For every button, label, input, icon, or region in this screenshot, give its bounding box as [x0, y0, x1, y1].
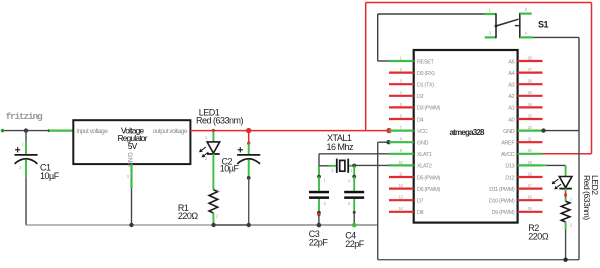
capacitor C3 — [318, 177, 320, 191]
pin 4 D2 — [389, 95, 414, 97]
wire LED2 to R2 — [565, 188, 567, 201]
wire VCC right drop — [591, 3, 593, 154]
svg-text:S1: S1 — [538, 20, 549, 30]
pin 22 GND — [518, 130, 543, 132]
svg-text:D5 (PWM): D5 (PWM) — [417, 175, 440, 181]
svg-text:D7: D7 — [417, 199, 424, 205]
wire crystal left down to C3 — [318, 166, 320, 177]
svg-text:220Ω: 220Ω — [528, 232, 549, 242]
wire C3 to ground rail — [318, 215, 320, 225]
LED1 symbol — [207, 142, 220, 153]
svg-text:VCC: VCC — [417, 129, 428, 135]
wire VCC rail (regulator output to atmega VCC) — [190, 130, 389, 132]
pin 18 D12 — [518, 176, 543, 178]
svg-text:output voltage: output voltage — [153, 128, 188, 135]
node C2 junction VCC rail — [246, 128, 251, 133]
pin 15 D9 (PWM) — [518, 211, 543, 213]
wire ground rail right segment — [249, 224, 378, 226]
wire to AVCC — [543, 153, 592, 155]
wire to crystal left pin — [319, 165, 329, 167]
svg-text:10µF: 10µF — [40, 171, 60, 181]
wire C2 bottom — [248, 178, 250, 225]
wire ground rail mid segment — [214, 224, 249, 226]
voltage regulator U1 box — [73, 120, 190, 164]
resistor R1 — [209, 190, 218, 213]
node regulator GND junction — [129, 223, 133, 227]
wire input rail left — [3, 130, 50, 132]
pin 16 D10 (PWM) — [518, 199, 543, 201]
pin 24 A1 — [518, 106, 543, 108]
R1 bottom pin — [212, 213, 214, 225]
wire reset net top — [378, 13, 484, 15]
svg-text:D11 (PWM): D11 (PWM) — [489, 187, 515, 193]
svg-text:22pF: 22pF — [309, 237, 329, 247]
pin 17 D11 (PWM) — [518, 188, 543, 190]
svg-text:10µF: 10µF — [220, 163, 240, 173]
pin 10 XLAT2 — [389, 164, 414, 166]
wire reset net to pin — [378, 60, 389, 62]
pin 8 GND — [389, 141, 414, 143]
node R1 ground junction — [211, 223, 215, 227]
op-amp atmega328 U2 box — [414, 50, 518, 223]
svg-text:D8: D8 — [417, 210, 424, 216]
svg-text:XLAT2: XLAT2 — [417, 164, 432, 170]
node R2 ground junction — [563, 258, 567, 262]
wire ground rail lower right — [378, 259, 579, 261]
svg-text:RESET: RESET — [417, 59, 435, 65]
wire GND riser down — [578, 131, 580, 260]
crystal XTAL1 symbol — [329, 165, 337, 167]
node C4 top bend — [352, 175, 356, 179]
capacitor C1 — [25, 142, 27, 155]
wire C2 top red — [248, 131, 250, 144]
pin 2 D0 (RX) — [389, 71, 414, 73]
node C2 wire end — [247, 142, 250, 145]
pin 28 A5 — [518, 60, 543, 62]
node VCC pin junction — [386, 128, 391, 133]
regulator input pin — [49, 130, 73, 132]
svg-text:D9 (PWM): D9 (PWM) — [491, 210, 514, 216]
regulator GND pin — [130, 164, 132, 188]
wire crystal right down to C4 — [353, 166, 355, 177]
pin 9 XLAT1 — [389, 153, 414, 155]
LED D1 pin top — [212, 131, 214, 142]
node C4 ground junction (green) — [352, 223, 357, 228]
svg-text:D0 (RX): D0 (RX) — [417, 71, 435, 77]
node C3 top bend — [317, 175, 321, 179]
svg-text:AREF: AREF — [501, 141, 515, 147]
pin 11 D5 (PWM) — [389, 176, 414, 178]
pin 12 D6 (PWM) — [389, 188, 414, 190]
node crystal right junction — [352, 164, 356, 168]
node LED1 anode junction — [212, 129, 215, 132]
pin 14 D8 — [389, 211, 414, 213]
wire R2 to ground rail — [565, 230, 567, 260]
wire C1 bottom — [25, 177, 27, 225]
R2 bottom pin — [565, 222, 567, 230]
pin 7 VCC — [389, 130, 414, 132]
pin 3 D1 (TX) — [389, 83, 414, 85]
pin 25 A2 — [518, 95, 543, 97]
pin 19 D13 — [518, 164, 543, 166]
node C3 bottom bend — [317, 211, 321, 215]
node C3 ground junction — [317, 223, 322, 228]
resistor R2 — [561, 201, 570, 222]
svg-text:GND: GND — [503, 129, 515, 135]
svg-text:D10 (PWM): D10 (PWM) — [489, 199, 515, 205]
svg-text:A4: A4 — [508, 71, 514, 77]
wire D13 to LED2 — [543, 164, 547, 166]
node C1 junction — [24, 128, 28, 132]
node C2 ground junction — [247, 223, 251, 227]
svg-text:Red (633nm): Red (633nm) — [196, 115, 244, 125]
wire switch to GND vertical net — [533, 36, 579, 38]
svg-text:AVCC: AVCC — [501, 152, 515, 158]
wire C1 top — [25, 131, 27, 142]
wire reset net vertical — [377, 14, 379, 61]
svg-text:5V: 5V — [128, 142, 138, 151]
node C4 bottom bend — [353, 211, 356, 214]
pin 26 A3 — [518, 83, 543, 85]
switch S1 — [484, 13, 496, 15]
wire C4 to ground rail — [353, 212, 355, 225]
svg-text:D6 (PWM): D6 (PWM) — [417, 187, 440, 193]
svg-text:XLAT1: XLAT1 — [417, 152, 432, 158]
node GND pin22 junction — [541, 128, 545, 132]
wire ground rail left segment — [25, 224, 213, 226]
svg-text:fritzing: fritzing — [6, 111, 44, 122]
wire GND pin22 to riser — [543, 130, 580, 132]
svg-text:A3: A3 — [508, 83, 514, 89]
svg-text:Red (633nm): Red (633nm) — [582, 175, 592, 220]
svg-text:D2: D2 — [417, 94, 424, 100]
svg-text:D13: D13 — [505, 164, 514, 170]
wire atmega GND pin8 horizontal — [378, 141, 389, 143]
svg-text:D12: D12 — [505, 175, 514, 181]
wire VCC riser — [365, 3, 367, 131]
svg-text:atmega328: atmega328 — [450, 128, 486, 137]
wire XLAT1 net horizontal — [319, 153, 389, 155]
pin 21 AREF — [518, 141, 543, 143]
svg-text:D4: D4 — [417, 117, 424, 123]
capacitor C4 — [353, 177, 355, 191]
pin 20 AVCC — [518, 153, 543, 155]
pin 23 A0 — [518, 118, 543, 120]
svg-text:input voltage: input voltage — [77, 128, 109, 135]
svg-text:220Ω: 220Ω — [178, 211, 199, 221]
svg-text:A0: A0 — [508, 117, 514, 123]
svg-text:GND: GND — [417, 141, 429, 147]
wire XLAT2 net horizontal — [354, 164, 389, 166]
pin 27 A4 — [518, 71, 543, 73]
wire regulator GND to rail — [131, 188, 133, 225]
svg-text:22pF: 22pF — [345, 239, 365, 249]
pin 1 RESET — [389, 60, 414, 62]
wire LED1 to R1 — [212, 154, 214, 190]
node C2 bottom bend — [247, 176, 251, 180]
LED2 symbol — [559, 177, 572, 188]
pin 5 D3 (PWM) — [389, 106, 414, 108]
wire GND vertical down — [377, 142, 379, 260]
node regulator input pin end — [48, 129, 51, 132]
svg-text:D1 (TX): D1 (TX) — [417, 83, 434, 89]
node input rail left end — [1, 129, 5, 133]
svg-text:D3 (PWM): D3 (PWM) — [417, 106, 440, 112]
wire XLAT1 net vertical — [318, 154, 320, 166]
node GND pin8 bend — [386, 140, 390, 144]
capacitor C2 — [248, 143, 250, 155]
pin 13 D7 — [389, 199, 414, 201]
svg-text:A1: A1 — [508, 106, 514, 112]
pin 6 D4 — [389, 118, 414, 120]
svg-text:16 Mhz: 16 Mhz — [327, 142, 355, 152]
label LED2 rotated — [582, 175, 600, 220]
svg-text:A2: A2 — [508, 94, 514, 100]
svg-text:A5: A5 — [508, 59, 514, 65]
wire VCC top rail — [366, 2, 592, 4]
